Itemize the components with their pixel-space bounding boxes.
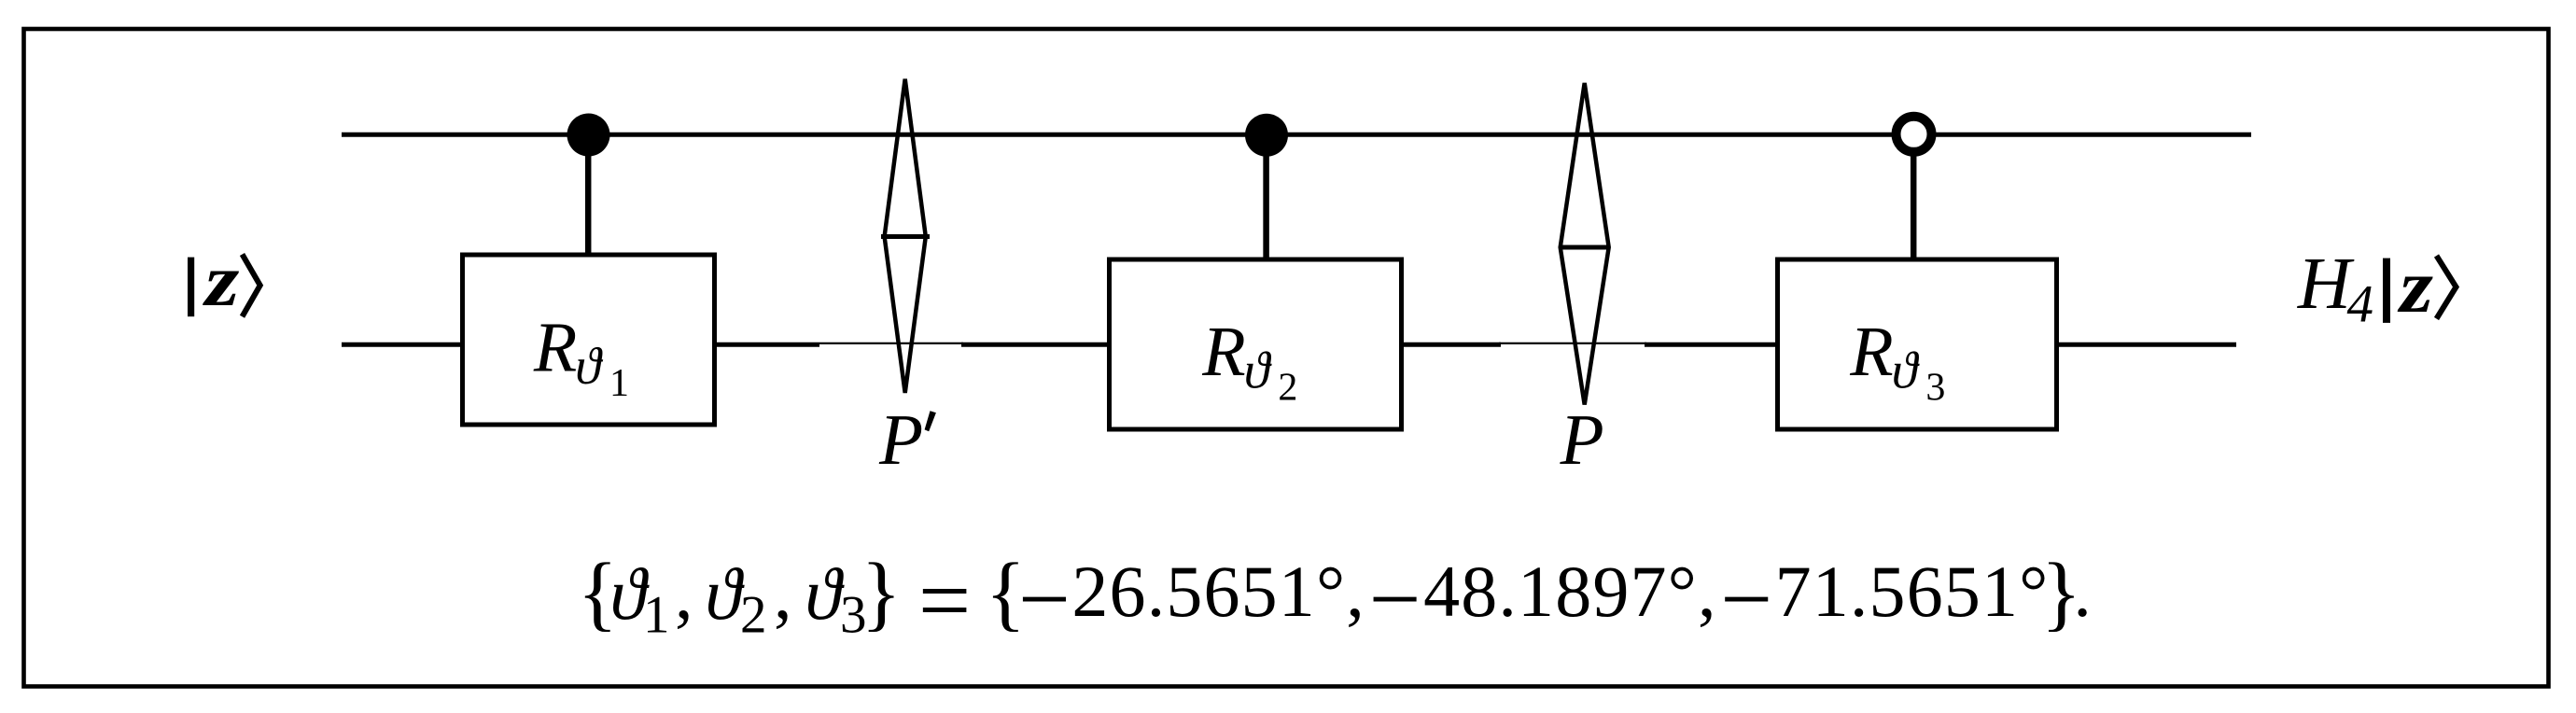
wire: top qubit line bbox=[342, 133, 2251, 137]
svg-text:−: − bbox=[1720, 549, 1772, 650]
svg-text:−: − bbox=[1018, 549, 1071, 650]
svg-text:48.1897°,: 48.1897°, bbox=[1423, 551, 1717, 632]
svg-text:ϑ: ϑ bbox=[575, 338, 603, 396]
control line 2 bbox=[1263, 134, 1269, 259]
node H4|z> output label bbox=[2297, 243, 2457, 333]
svg-text:2: 2 bbox=[740, 586, 767, 645]
wire: thin connector through P' bbox=[819, 343, 963, 344]
svg-text:71.5651°: 71.5651° bbox=[1775, 551, 2050, 632]
label R_theta2 bbox=[1201, 313, 1297, 410]
svg-text:−: − bbox=[1369, 549, 1421, 650]
svg-text:26.5651°,: 26.5651°, bbox=[1071, 551, 1365, 632]
permutation symbol P (diamond) bbox=[1561, 83, 1609, 405]
svg-text:z: z bbox=[2397, 243, 2433, 328]
svg-text:P: P bbox=[1560, 399, 1604, 480]
P crossbar bbox=[1560, 245, 1609, 250]
wire: bottom segment 2 bbox=[713, 343, 819, 347]
gate box R_theta2 bbox=[1110, 259, 1402, 429]
formula: theta values bbox=[578, 547, 2092, 652]
gate box R_theta3 bbox=[1778, 259, 2057, 429]
wire: thin connector through P bbox=[1499, 343, 1646, 344]
P' crossbar bbox=[881, 234, 930, 239]
svg-text:,: , bbox=[675, 552, 693, 634]
svg-text:}: } bbox=[861, 547, 902, 639]
svg-text:3: 3 bbox=[1925, 367, 1945, 410]
svg-text:4: 4 bbox=[2347, 275, 2374, 334]
label R_theta3 bbox=[1849, 313, 1945, 410]
open control (anti-control) bbox=[1897, 117, 1932, 152]
svg-text:.: . bbox=[2073, 551, 2092, 632]
control dot 1 (filled) bbox=[567, 114, 610, 157]
label R_theta1 bbox=[533, 309, 629, 406]
svg-text:2: 2 bbox=[1278, 367, 1297, 410]
wire: bottom segment 4 bbox=[1400, 343, 1501, 347]
svg-text:1: 1 bbox=[609, 362, 629, 405]
svg-text:ϑ: ϑ bbox=[1244, 343, 1272, 400]
svg-text:R: R bbox=[1201, 313, 1245, 391]
svg-text:=: = bbox=[918, 549, 971, 652]
svg-text:ϑ: ϑ bbox=[1892, 343, 1920, 400]
wire: bottom segment 6 bbox=[2055, 343, 2236, 347]
svg-text:R: R bbox=[1849, 313, 1893, 391]
svg-text:,: , bbox=[774, 552, 792, 634]
control line 1 bbox=[585, 134, 592, 255]
svg-text:1: 1 bbox=[643, 586, 670, 645]
svg-text:R: R bbox=[533, 309, 577, 387]
control dot 2 (filled) bbox=[1245, 114, 1288, 157]
control line 3 bbox=[1911, 140, 1917, 259]
svg-text:P: P bbox=[878, 399, 923, 480]
node |z> input label bbox=[188, 240, 260, 321]
label P' bbox=[878, 399, 936, 480]
wire: bottom qubit line segment 1 bbox=[342, 343, 464, 347]
wire: bottom segment 3 bbox=[961, 343, 1111, 347]
permutation symbol P' (diamond) bbox=[885, 79, 926, 393]
wire: bottom segment 5 bbox=[1645, 343, 1779, 347]
gate box R_theta1 bbox=[463, 255, 715, 425]
svg-text:z: z bbox=[203, 240, 240, 321]
